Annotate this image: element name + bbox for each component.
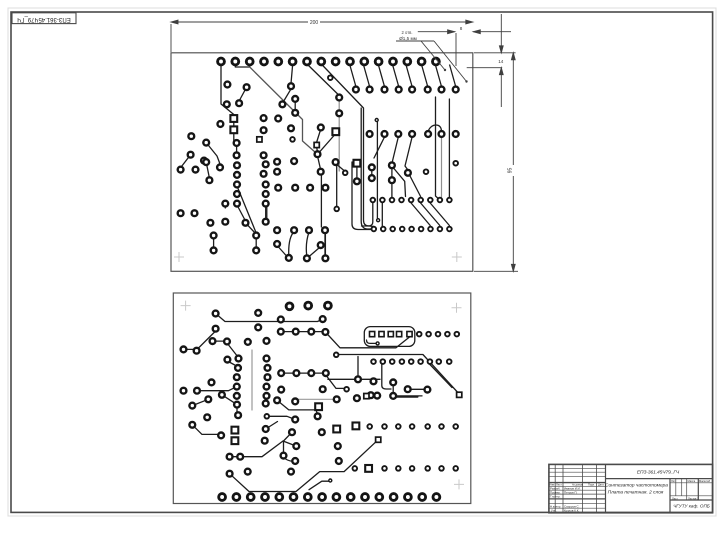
bus trace 1 bbox=[321, 64, 374, 227]
small square pad mid bbox=[376, 437, 381, 442]
link between pads bbox=[409, 388, 426, 390]
short diag 2 bbox=[192, 399, 208, 405]
gray vertical trace bbox=[251, 350, 253, 410]
svg-text:8: 8 bbox=[460, 26, 463, 31]
scattered pads of top board bbox=[178, 75, 458, 261]
vert jog trace bbox=[284, 432, 293, 453]
pair link r bbox=[371, 169, 373, 177]
T trace bbox=[328, 357, 380, 380]
U trace right 1 bbox=[352, 162, 371, 230]
fan of diagonal traces top-right bbox=[350, 65, 456, 87]
diag link to small pad bbox=[326, 375, 344, 388]
long horizontal trace upper bbox=[216, 314, 323, 322]
pad row lower A bbox=[367, 424, 458, 429]
dimension 14 right of board bbox=[467, 14, 503, 107]
diag link 2 bbox=[227, 361, 237, 367]
bottom board fiducial top-left bbox=[181, 301, 191, 311]
diag to pad bbox=[336, 164, 346, 172]
serpentine trace to small pad bbox=[230, 440, 379, 492]
svg-text:14: 14 bbox=[498, 59, 504, 64]
title block texts bbox=[550, 469, 711, 512]
trace from row to connector bbox=[325, 332, 409, 348]
width dimension line bbox=[171, 20, 473, 52]
connector square pads bbox=[370, 332, 413, 337]
via above row C bbox=[375, 119, 378, 122]
trace diag left 2 bbox=[182, 155, 191, 167]
trace pair link 2 bbox=[213, 237, 215, 249]
svg-text:95: 95 bbox=[508, 168, 514, 174]
row link horizontal upper bbox=[278, 331, 325, 333]
hook trace bbox=[382, 362, 391, 389]
svg-text:Плата печатная. 2 слоя: Плата печатная. 2 слоя bbox=[608, 490, 664, 496]
diag+vert pair bbox=[222, 395, 237, 414]
connector outline rounded box bbox=[364, 327, 415, 347]
pad row C (third row) bbox=[367, 131, 459, 137]
gray horizontal link bbox=[295, 398, 337, 400]
trace to column bbox=[197, 387, 237, 391]
trace diag left bbox=[206, 143, 220, 164]
diagonals row D to row E bbox=[411, 203, 449, 226]
square pad row lower B bbox=[365, 465, 372, 472]
pair link r3 bbox=[391, 167, 393, 179]
trace cluster link bbox=[230, 441, 283, 457]
cascade diagonal 2 bbox=[307, 64, 339, 96]
height dimension line bbox=[474, 53, 518, 271]
vertical link bbox=[336, 165, 338, 207]
second parallel diagonal bbox=[429, 363, 453, 388]
bus trace 7 bbox=[448, 99, 450, 197]
trace row D first pad hook bbox=[362, 203, 373, 226]
svg-text:Т.контр.: Т.контр. bbox=[550, 495, 561, 499]
scattered pads of bottom board bbox=[181, 302, 431, 482]
title block bbox=[549, 464, 713, 512]
svg-text:ЕПЗ-361.45Ч79_ГЧ: ЕПЗ-361.45Ч79_ГЧ bbox=[17, 16, 71, 22]
top board fiducial bottom-right bbox=[452, 252, 462, 262]
svg-text:Подп.: Подп. bbox=[588, 483, 595, 487]
row link horizontal bbox=[281, 372, 326, 374]
vertical bottom cluster bbox=[324, 232, 326, 257]
diag bottom cluster bbox=[309, 247, 321, 258]
small S link bbox=[284, 457, 296, 461]
trace pad A6 down bbox=[291, 64, 293, 84]
connector round pads bbox=[417, 332, 459, 337]
svg-text:Масса: Масса bbox=[688, 479, 696, 483]
trace squares column bbox=[234, 121, 237, 153]
trace row D-E link bbox=[381, 203, 383, 226]
thick short link bbox=[392, 396, 418, 398]
diag trace to row D b bbox=[410, 175, 421, 197]
pair link bbox=[213, 340, 228, 342]
short diagonal mid-left 2 bbox=[246, 223, 257, 234]
short diagonal mid-left bbox=[237, 205, 246, 221]
pair link r4 bbox=[356, 166, 358, 179]
bus trace 5 bbox=[436, 97, 440, 200]
svg-text:Петров П.: Петров П. bbox=[564, 491, 578, 495]
trace left cluster 1 bbox=[239, 87, 247, 101]
trace to row D bbox=[391, 183, 393, 197]
pad row A (top edge row) bbox=[218, 58, 440, 65]
svg-text:Ø1,5 мм: Ø1,5 мм bbox=[399, 36, 417, 41]
svg-text:Утв.: Утв. bbox=[551, 509, 557, 513]
stub bbox=[224, 205, 226, 208]
svg-text:ЧГУТУ каф. ОПБ: ЧГУТУ каф. ОПБ bbox=[673, 504, 710, 509]
svg-text:Листов 1: Листов 1 bbox=[688, 496, 699, 500]
svg-text:Синтезатор частотомера: Синтезатор частотомера bbox=[605, 483, 668, 489]
diag to left pair bbox=[199, 331, 216, 348]
square pad row lower A bbox=[353, 423, 360, 430]
pad row B (second row) bbox=[353, 87, 459, 93]
svg-text:2 отв.: 2 отв. bbox=[401, 30, 412, 35]
svg-text:ЕПЗ-361.45Ч79_ГЧ: ЕПЗ-361.45Ч79_ГЧ bbox=[637, 469, 680, 475]
svg-text:Лит.: Лит. bbox=[671, 479, 676, 483]
long diagonal mid-left bbox=[237, 186, 256, 233]
polyline trace lower-left bbox=[277, 400, 319, 414]
long diagonal trace to junction bbox=[250, 67, 318, 154]
gray vertical bbox=[338, 100, 340, 171]
polyline left bbox=[192, 425, 219, 435]
small dimension 8 bbox=[418, 30, 511, 66]
arc link row3 bbox=[428, 125, 441, 131]
short diag bbox=[266, 422, 278, 430]
S-trace bottom cluster 2 bbox=[277, 246, 287, 257]
trace linking pads A2-A3 bbox=[235, 62, 249, 68]
pad row E bbox=[372, 227, 452, 232]
left pair link bbox=[184, 348, 197, 350]
svg-text:200: 200 bbox=[310, 20, 319, 26]
svg-text:Козлов К.К.: Козлов К.К. bbox=[564, 509, 579, 513]
trace from pad A1 to square pad bbox=[221, 62, 234, 119]
top board outline bbox=[171, 53, 473, 271]
small square pad at diagonal end bbox=[457, 392, 462, 397]
pad row mid (y=361) bbox=[371, 359, 451, 364]
pair link small bbox=[294, 101, 296, 111]
fan row3 down-left bbox=[374, 137, 412, 170]
stub link bbox=[283, 441, 296, 446]
diag to pad bbox=[283, 89, 291, 102]
via inside connector bbox=[376, 342, 379, 345]
bottom board fiducial bottom-right bbox=[454, 479, 464, 489]
junction cluster traces bbox=[317, 129, 336, 170]
pad row D bbox=[371, 198, 452, 203]
bus trace 3 bbox=[361, 108, 371, 229]
bottom board outline bbox=[173, 293, 471, 504]
pad row lower B first bbox=[353, 466, 358, 471]
pair and horizontal bbox=[393, 384, 422, 396]
svg-text:Масштаб: Масштаб bbox=[699, 479, 711, 483]
trace pair link bbox=[206, 162, 209, 178]
column link b bbox=[266, 205, 268, 220]
link to pad bbox=[267, 416, 295, 419]
bus trace 4 bbox=[376, 121, 378, 218]
top board fiducial bottom-left bbox=[174, 252, 184, 262]
via near row E bbox=[377, 219, 380, 222]
leader-like trace bbox=[309, 481, 330, 490]
column link bbox=[265, 205, 267, 220]
hole diameter leader bbox=[396, 41, 467, 82]
diag trace to row D bbox=[394, 168, 406, 197]
trace pair link 3 bbox=[255, 237, 257, 249]
S-trace bottom cluster 1 bbox=[289, 232, 294, 257]
bus trace 6 gray bbox=[441, 136, 443, 197]
long trace with big diagonal bbox=[336, 355, 459, 395]
diag link bbox=[227, 343, 238, 357]
svg-text:Лист: Лист bbox=[672, 496, 678, 500]
bottom edge pad row bbox=[219, 494, 440, 501]
hook inside connector bbox=[367, 340, 378, 343]
S-trace bottom cluster 3 bbox=[306, 232, 309, 257]
svg-text:Дата: Дата bbox=[598, 483, 604, 487]
designation box top-left bbox=[12, 13, 76, 24]
bottom board fiducial top-right bbox=[452, 303, 462, 313]
vertical bus left-center bbox=[320, 173, 322, 227]
vertical to bottom pad bbox=[324, 232, 326, 257]
pad row lower B bbox=[382, 466, 458, 471]
